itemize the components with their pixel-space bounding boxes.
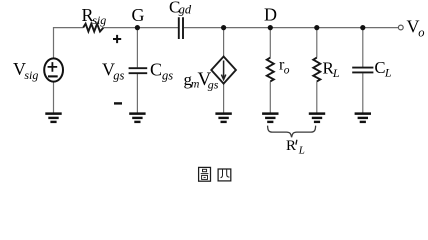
- svg-text:gs: gs: [162, 68, 173, 82]
- svg-text:o: o: [284, 64, 290, 76]
- svg-text:gs: gs: [113, 68, 124, 82]
- svg-text:gd: gd: [179, 3, 192, 17]
- svg-text:D: D: [264, 5, 277, 25]
- svg-text:sig: sig: [92, 13, 106, 27]
- svg-text:G: G: [132, 5, 145, 25]
- svg-text:L: L: [384, 65, 392, 79]
- svg-text:L: L: [298, 144, 305, 156]
- svg-text:R: R: [286, 138, 296, 154]
- svg-text:C: C: [150, 60, 162, 80]
- svg-text:C: C: [375, 58, 386, 77]
- svg-text:o: o: [418, 25, 424, 39]
- svg-text:sig: sig: [24, 68, 38, 82]
- svg-text:gs: gs: [208, 77, 219, 91]
- svg-text:L: L: [332, 66, 340, 80]
